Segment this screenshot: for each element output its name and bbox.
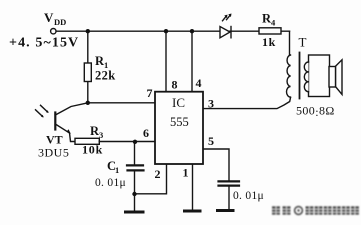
svg-text:IC: IC	[172, 95, 185, 110]
svg-text:3DU5: 3DU5	[38, 146, 69, 160]
svg-text:VT: VT	[46, 133, 63, 147]
svg-text:3: 3	[99, 130, 103, 140]
svg-text:10k: 10k	[82, 143, 103, 157]
svg-text:3: 3	[208, 97, 214, 111]
svg-text:4: 4	[196, 76, 202, 90]
svg-text:6: 6	[143, 126, 149, 140]
svg-text:4: 4	[271, 18, 276, 28]
svg-text:22k: 22k	[95, 69, 116, 83]
svg-text:500:8Ω: 500:8Ω	[296, 104, 335, 120]
svg-text:1: 1	[115, 165, 119, 175]
svg-text:1k: 1k	[262, 35, 276, 49]
svg-text:1: 1	[183, 166, 189, 180]
svg-text:+4. 5~15V: +4. 5~15V	[9, 36, 79, 51]
svg-text:T: T	[299, 35, 307, 50]
svg-text:2: 2	[155, 167, 161, 181]
svg-text:V: V	[44, 10, 54, 25]
svg-text:DD: DD	[54, 17, 66, 27]
svg-text:5: 5	[208, 134, 214, 148]
svg-text:0. 01μ: 0. 01μ	[233, 190, 264, 202]
svg-text:0. 01μ: 0. 01μ	[95, 177, 126, 189]
svg-text:8: 8	[172, 78, 178, 92]
svg-text:555: 555	[170, 115, 189, 129]
svg-text:7: 7	[147, 86, 153, 100]
